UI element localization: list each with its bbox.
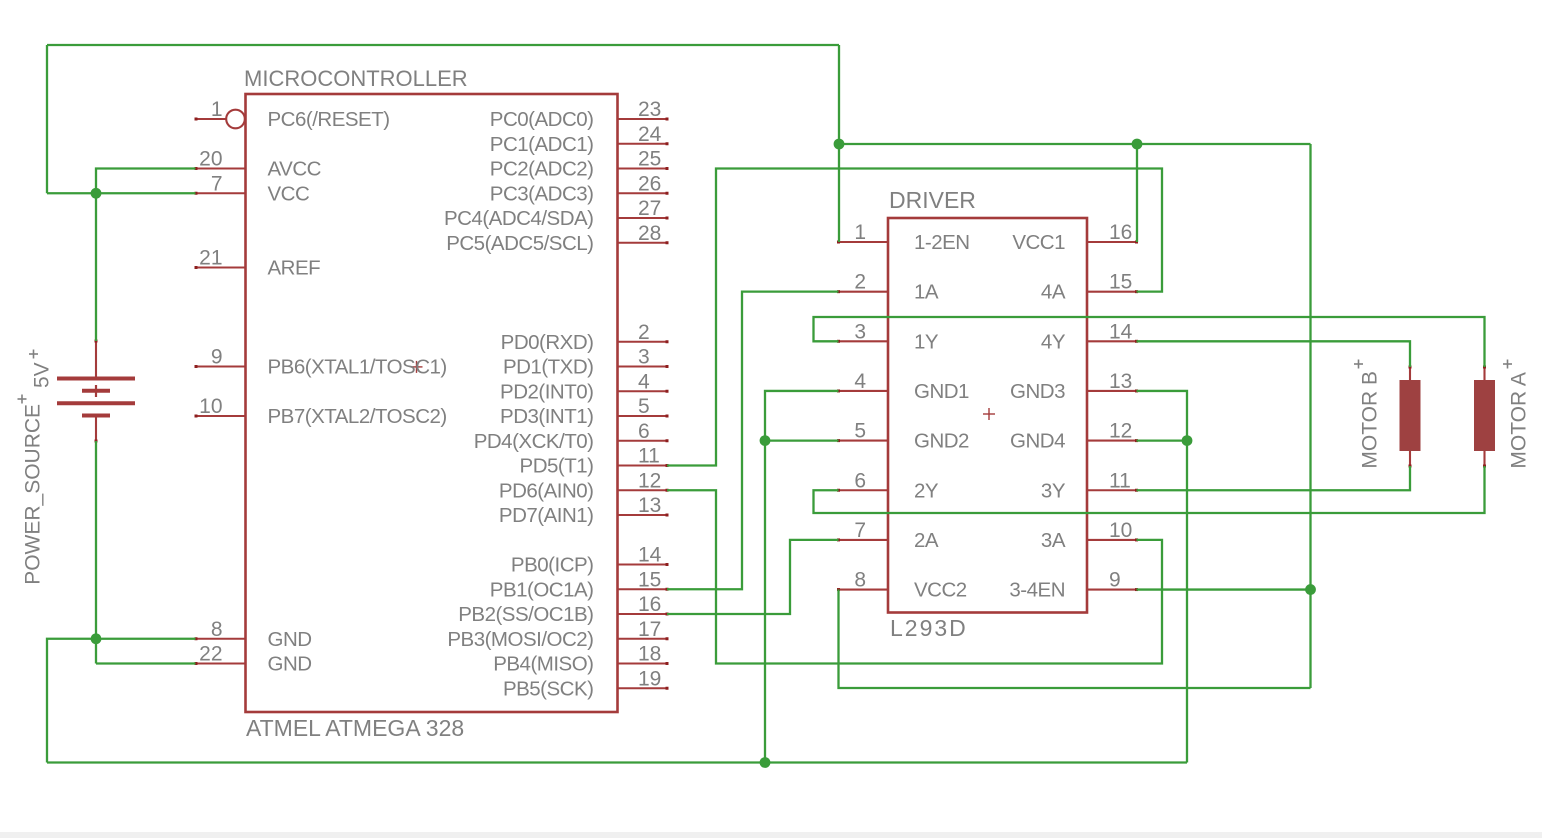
svg-text:15: 15 bbox=[638, 568, 661, 591]
motor A label MOTOR A bbox=[1508, 372, 1531, 468]
U1 pin 14 PB0(ICP) bbox=[511, 544, 669, 577]
svg-text:GND: GND bbox=[268, 628, 312, 651]
U1 pin 1 PC6(/RESET) bbox=[195, 98, 390, 131]
U1 pin 3 PD1(TXD) bbox=[503, 346, 669, 379]
svg-text:GND4: GND4 bbox=[1010, 430, 1065, 453]
svg-text:7: 7 bbox=[211, 172, 223, 195]
svg-text:GND3: GND3 bbox=[1010, 380, 1065, 403]
svg-text:6: 6 bbox=[638, 420, 650, 443]
wire net 1Y to motor A top bbox=[814, 317, 1485, 367]
U1 pin 20 AVCC bbox=[195, 148, 322, 181]
junction GND at U1 GND pins bbox=[91, 633, 102, 644]
U1 pin 22 GND bbox=[195, 643, 312, 676]
svg-text:PC0(ADC0): PC0(ADC0) bbox=[490, 108, 594, 131]
wire net PD5 to U2 pin 15 4A bbox=[667, 169, 1162, 466]
U1 pin 23 PC0(ADC0) bbox=[490, 98, 669, 131]
U1 pin 16 PB2(SS/OC1B) bbox=[458, 593, 668, 626]
U1 pin 18 PB4(MISO) bbox=[493, 643, 668, 676]
U2 pin 6 2Y bbox=[837, 469, 939, 502]
U1 pin 7 VCC bbox=[195, 172, 310, 205]
svg-text:20: 20 bbox=[199, 148, 222, 171]
svg-text:1: 1 bbox=[854, 221, 866, 244]
U2 pin 13 GND3 bbox=[1010, 370, 1138, 403]
U1 pin 15 PB1(OC1A) bbox=[490, 568, 669, 601]
wire net 4Y to motor B top bbox=[1137, 341, 1411, 367]
svg-text:PC1(ADC1): PC1(ADC1) bbox=[490, 133, 594, 156]
svg-text:L293D: L293D bbox=[890, 615, 968, 641]
wire GND to U1 pin 8 bbox=[96, 638, 196, 640]
driver U2 body outline bbox=[888, 218, 1087, 613]
svg-text:3: 3 bbox=[854, 320, 866, 343]
svg-text:13: 13 bbox=[638, 494, 661, 517]
wire VCC to U2 pin 9 3-4EN bbox=[1137, 588, 1311, 590]
svg-text:PB4(MISO): PB4(MISO) bbox=[493, 653, 593, 676]
svg-text:23: 23 bbox=[638, 98, 661, 121]
svg-text:PD1(TXD): PD1(TXD) bbox=[503, 356, 594, 379]
svg-text:2Y: 2Y bbox=[914, 479, 939, 502]
U1 pin 26 PC3(ADC3) bbox=[490, 172, 669, 205]
U2 value L293D bbox=[890, 615, 968, 641]
U2 label DRIVER bbox=[889, 187, 976, 213]
U1 pin 11 PD5(T1) bbox=[520, 445, 669, 478]
junction VCC at battery/U1 VCC bbox=[91, 188, 102, 199]
U2 pin 7 2A bbox=[837, 519, 939, 552]
wire GND U2 pin 12 GND4 drop bbox=[1137, 441, 1188, 763]
svg-text:1Y: 1Y bbox=[914, 330, 939, 353]
battery POWER_SOURCE plus mark bbox=[18, 395, 27, 404]
wire VCC to U1 pin 7 bbox=[47, 192, 196, 194]
svg-text:PC5(ADC5/SCL): PC5(ADC5/SCL) bbox=[446, 232, 593, 255]
U2 pin 4 GND1 bbox=[837, 370, 969, 403]
U2 pin 2 1A bbox=[837, 271, 939, 304]
microcontroller U1 body outline bbox=[246, 94, 618, 712]
junction GND at U2 GND2 bbox=[760, 435, 771, 446]
svg-text:PB6(XTAL1/TOSC1): PB6(XTAL1/TOSC1) bbox=[268, 356, 447, 379]
svg-text:4: 4 bbox=[638, 370, 650, 393]
svg-text:VCC2: VCC2 bbox=[914, 579, 967, 602]
svg-text:26: 26 bbox=[638, 172, 661, 195]
junction GND bottom rail bbox=[760, 757, 771, 768]
svg-text:4: 4 bbox=[854, 370, 866, 393]
svg-text:PB7(XTAL2/TOSC2): PB7(XTAL2/TOSC2) bbox=[268, 405, 447, 428]
U1 pin 25 PC2(ADC2) bbox=[490, 148, 669, 181]
battery G1 plates bbox=[57, 379, 135, 416]
U1 pin 28 PC5(ADC5/SCL) bbox=[446, 222, 668, 255]
wire VCC junction to battery plus bbox=[95, 193, 97, 341]
wire net PB1 to U2 pin 2 1A bbox=[667, 292, 839, 590]
U1 origin cross bbox=[411, 361, 423, 373]
U1 pin 21 AREF bbox=[195, 247, 321, 280]
svg-text:5: 5 bbox=[854, 420, 866, 443]
svg-text:MOTOR B: MOTOR B bbox=[1358, 371, 1381, 469]
wire net PD6 to U2 pin 10 3A bbox=[667, 490, 1162, 663]
svg-text:MOTOR A: MOTOR A bbox=[1508, 372, 1531, 468]
svg-text:4Y: 4Y bbox=[1041, 330, 1066, 353]
wire GND left drop bbox=[47, 639, 96, 763]
junction VCC top at x839 bbox=[834, 139, 845, 150]
U1 pin 24 PC1(ADC1) bbox=[490, 123, 669, 156]
wire VCC drop to U2 pin 1 bbox=[838, 45, 840, 242]
svg-text:17: 17 bbox=[638, 618, 661, 641]
svg-text:GND: GND bbox=[268, 653, 312, 676]
U2 pin 1 1-2EN bbox=[837, 221, 970, 254]
U1 pin 4 PD2(INT0) bbox=[500, 370, 668, 403]
wire VCC left drop bbox=[46, 45, 48, 193]
svg-text:3-4EN: 3-4EN bbox=[1009, 579, 1065, 602]
svg-text:PD3(INT1): PD3(INT1) bbox=[500, 405, 593, 428]
svg-text:12: 12 bbox=[638, 469, 661, 492]
svg-text:1: 1 bbox=[211, 98, 223, 121]
svg-text:GND1: GND1 bbox=[914, 380, 969, 403]
U1 pin 17 PB3(MOSI/OC2) bbox=[447, 618, 668, 651]
wire net 2Y to motor A bottom bbox=[814, 466, 1485, 513]
svg-text:POWER_SOURCE: POWER_SOURCE bbox=[22, 404, 45, 585]
svg-text:ATMEL ATMEGA 328: ATMEL ATMEGA 328 bbox=[246, 715, 464, 741]
svg-text:16: 16 bbox=[638, 593, 661, 616]
motor A body bbox=[1474, 366, 1495, 468]
svg-text:1-2EN: 1-2EN bbox=[914, 231, 970, 254]
battery G1 positive pin bbox=[95, 340, 98, 379]
svg-text:AVCC: AVCC bbox=[268, 158, 322, 181]
wire GND bottom rail bbox=[47, 761, 1187, 763]
svg-text:VCC: VCC bbox=[268, 182, 310, 205]
svg-text:4A: 4A bbox=[1041, 281, 1066, 304]
svg-text:28: 28 bbox=[638, 222, 661, 245]
battery name POWER_SOURCE bbox=[22, 404, 45, 585]
svg-text:2: 2 bbox=[854, 271, 866, 294]
svg-text:PB2(SS/OC1B): PB2(SS/OC1B) bbox=[458, 603, 593, 626]
U1 pin 5 PD3(INT1) bbox=[500, 395, 668, 428]
svg-text:PC6(/RESET): PC6(/RESET) bbox=[268, 108, 390, 131]
svg-text:12: 12 bbox=[1109, 420, 1132, 443]
svg-text:3: 3 bbox=[638, 346, 650, 369]
wire VCC top rail bbox=[47, 44, 839, 46]
motor B label MOTOR B bbox=[1358, 371, 1381, 469]
svg-text:14: 14 bbox=[1109, 320, 1133, 343]
svg-text:DRIVER: DRIVER bbox=[889, 187, 976, 213]
U2 pin 11 3Y bbox=[1041, 469, 1138, 502]
svg-text:PC2(ADC2): PC2(ADC2) bbox=[490, 158, 594, 181]
motor B plus mark bbox=[1354, 360, 1363, 369]
svg-text:PC4(ADC4/SDA): PC4(ADC4/SDA) bbox=[444, 207, 594, 230]
svg-text:21: 21 bbox=[199, 247, 222, 270]
svg-text:9: 9 bbox=[1109, 569, 1121, 592]
svg-text:10: 10 bbox=[1109, 519, 1132, 542]
svg-text:3A: 3A bbox=[1041, 529, 1066, 552]
U1 pin 9 PB6(XTAL1/TOSC1) bbox=[195, 346, 447, 379]
U2 origin cross bbox=[983, 408, 995, 420]
U2 pin 12 GND4 bbox=[1010, 420, 1138, 453]
svg-text:MICROCONTROLLER: MICROCONTROLLER bbox=[244, 66, 468, 91]
svg-text:18: 18 bbox=[638, 643, 661, 666]
U2 pin 5 GND2 bbox=[837, 420, 969, 453]
wire VCC to U1 pin 20 AVCC bbox=[96, 169, 196, 194]
wire GND to U1 pin 22 bbox=[96, 662, 196, 664]
svg-text:PB3(MOSI/OC2): PB3(MOSI/OC2) bbox=[447, 628, 593, 651]
U2 pin 9 3-4EN bbox=[1009, 569, 1138, 602]
svg-text:24: 24 bbox=[638, 123, 662, 146]
svg-text:3Y: 3Y bbox=[1041, 479, 1066, 502]
svg-text:27: 27 bbox=[638, 197, 661, 220]
U1 pin 19 PB5(SCK) bbox=[503, 667, 669, 700]
svg-text:19: 19 bbox=[638, 667, 661, 690]
svg-text:5: 5 bbox=[638, 395, 650, 418]
svg-text:2A: 2A bbox=[914, 529, 939, 552]
svg-text:PB1(OC1A): PB1(OC1A) bbox=[490, 578, 594, 601]
svg-text:PD2(INT0): PD2(INT0) bbox=[500, 380, 593, 403]
wire VCC2 run to U2 pin 8 bbox=[839, 590, 1311, 688]
svg-text:25: 25 bbox=[638, 148, 661, 171]
svg-text:PD5(T1): PD5(T1) bbox=[520, 455, 594, 478]
wire VCC horizontal rail y144 bbox=[839, 143, 1311, 145]
U2 pin 15 4A bbox=[1041, 271, 1138, 304]
wire net 3Y to motor B bottom bbox=[1137, 466, 1411, 490]
U1 pin 10 PB7(XTAL2/TOSC2) bbox=[195, 395, 447, 428]
svg-text:13: 13 bbox=[1109, 370, 1132, 393]
battery value 5V bbox=[31, 362, 54, 388]
svg-text:11: 11 bbox=[1109, 469, 1131, 492]
svg-text:2: 2 bbox=[638, 321, 650, 344]
svg-text:VCC1: VCC1 bbox=[1012, 231, 1065, 254]
svg-text:GND2: GND2 bbox=[914, 430, 969, 453]
U1 pin 13 PD7(AIN1) bbox=[499, 494, 669, 527]
U2 pin 3 1Y bbox=[837, 320, 939, 353]
U2 pin 16 VCC1 bbox=[1012, 221, 1138, 254]
U2 pin 14 4Y bbox=[1041, 320, 1138, 353]
wire net PB2 to U2 pin 7 2A bbox=[667, 540, 839, 614]
U2 pin 10 3A bbox=[1041, 519, 1138, 552]
svg-text:PB0(ICP): PB0(ICP) bbox=[511, 554, 594, 577]
motor A plus mark bbox=[1503, 360, 1512, 369]
svg-text:10: 10 bbox=[199, 395, 222, 418]
wire GND U2 pin 13 GND3 bbox=[1137, 391, 1188, 441]
U1 pin 12 PD6(AIN0) bbox=[499, 469, 669, 502]
U2 pin 8 VCC2 bbox=[837, 569, 967, 602]
motor B body bbox=[1400, 366, 1421, 468]
wire GND U2 pin 5 GND2 bbox=[765, 439, 839, 441]
U1 pin 2 PD0(RXD) bbox=[501, 321, 669, 354]
U1 pin 6 PD4(XCK/T0) bbox=[474, 420, 669, 453]
svg-text:9: 9 bbox=[211, 346, 223, 369]
svg-text:PB5(SCK): PB5(SCK) bbox=[503, 677, 594, 700]
U1 label MICROCONTROLLER bbox=[244, 66, 468, 91]
U1 pin 8 GND bbox=[195, 618, 312, 651]
svg-text:PD6(AIN0): PD6(AIN0) bbox=[499, 479, 594, 502]
U1 pin 27 PC4(ADC4/SDA) bbox=[444, 197, 669, 230]
svg-text:15: 15 bbox=[1109, 271, 1132, 294]
svg-text:PD0(RXD): PD0(RXD) bbox=[501, 331, 594, 354]
bottom scrollbar strip bbox=[0, 832, 1542, 838]
junction VCC at x1137 bbox=[1132, 139, 1143, 150]
junction VCC at U2 3-4EN bbox=[1305, 584, 1316, 595]
svg-text:8: 8 bbox=[211, 618, 223, 641]
battery 5V plus mark bbox=[29, 350, 38, 359]
svg-text:22: 22 bbox=[199, 643, 222, 666]
svg-text:5V: 5V bbox=[31, 362, 54, 388]
svg-text:AREF: AREF bbox=[268, 257, 321, 280]
wire GND battery minus down bbox=[95, 441, 97, 664]
svg-text:7: 7 bbox=[854, 519, 866, 542]
U1 value ATMEL ATMEGA 328 bbox=[246, 715, 464, 741]
wire VCC right drop x1310 bbox=[1309, 144, 1311, 688]
svg-text:11: 11 bbox=[638, 445, 660, 468]
svg-text:PD7(AIN1): PD7(AIN1) bbox=[499, 504, 594, 527]
battery G1 negative pin bbox=[95, 416, 98, 443]
wire GND U2 pin 4 GND1 drop bbox=[765, 391, 839, 763]
svg-text:PC3(ADC3): PC3(ADC3) bbox=[490, 182, 594, 205]
svg-text:1A: 1A bbox=[914, 281, 939, 304]
svg-text:8: 8 bbox=[854, 569, 866, 592]
svg-text:PD4(XCK/T0): PD4(XCK/T0) bbox=[474, 430, 594, 453]
svg-text:14: 14 bbox=[638, 544, 662, 567]
svg-text:16: 16 bbox=[1109, 221, 1132, 244]
junction GND at U2 GND4 bbox=[1182, 435, 1193, 446]
wire VCC riser to U2 pin 16 bbox=[1136, 144, 1138, 242]
svg-text:6: 6 bbox=[854, 469, 866, 492]
